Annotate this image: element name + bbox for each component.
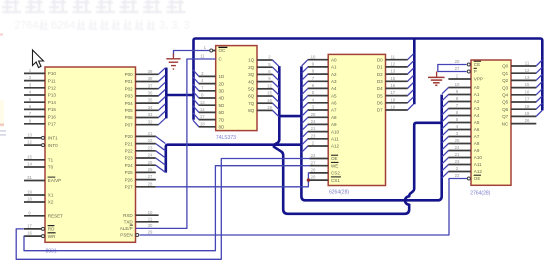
- svg-text:26: 26: [311, 168, 316, 173]
- svg-text:WR: WR: [48, 234, 56, 239]
- svg-text:OC: OC: [219, 48, 227, 53]
- svg-text:Q5: Q5: [502, 100, 509, 105]
- svg-text:4D: 4D: [219, 96, 226, 101]
- svg-text:RESET: RESET: [48, 214, 63, 219]
- U1 right pin names: [120, 72, 134, 238]
- svg-text:15: 15: [525, 82, 530, 87]
- svg-text:12: 12: [267, 83, 272, 88]
- U2 left pin numbers: [200, 45, 207, 127]
- svg-text:A8: A8: [331, 115, 337, 120]
- svg-text:3D: 3D: [219, 89, 226, 94]
- svg-text:D0: D0: [377, 57, 383, 62]
- bus entries P00-P07: [158, 68, 165, 125]
- svg-text:20: 20: [311, 175, 316, 180]
- svg-text:4Q: 4Q: [248, 79, 255, 84]
- svg-text:P26: P26: [125, 177, 134, 182]
- mouse cursor: [33, 50, 44, 68]
- svg-text:A12: A12: [331, 144, 340, 149]
- U4 left pin wires: [448, 63, 471, 180]
- svg-text:VPP: VPP: [474, 77, 483, 82]
- svg-text:37: 37: [148, 83, 153, 88]
- svg-text:A9: A9: [331, 122, 337, 127]
- svg-text:RXD: RXD: [123, 213, 133, 218]
- svg-text:32: 32: [148, 119, 153, 124]
- wire OC to ground: [174, 51, 210, 58]
- svg-text:24: 24: [148, 153, 153, 158]
- svg-text:10: 10: [455, 82, 460, 87]
- U3 overlines OE WE CS1: [331, 155, 341, 177]
- U3 left pin wires: [308, 60, 329, 180]
- svg-text:21: 21: [311, 126, 316, 131]
- svg-text:P03: P03: [125, 94, 134, 99]
- svg-text:OE: OE: [331, 156, 338, 161]
- svg-text:A10: A10: [331, 129, 340, 134]
- U2 OC overline: [218, 46, 227, 48]
- svg-text:WE: WE: [331, 163, 338, 168]
- svg-text:8031: 8031: [46, 248, 57, 254]
- U2 right pin names: [248, 58, 255, 113]
- svg-text:A7: A7: [474, 134, 480, 139]
- U1 right pin wires: [136, 74, 159, 236]
- U4 right pin numbers: [525, 61, 530, 124]
- svg-text:A9: A9: [474, 148, 480, 153]
- svg-text:T0: T0: [48, 165, 54, 170]
- bus bridge Q to 6264 address: [279, 115, 301, 118]
- svg-text:P07: P07: [125, 122, 134, 127]
- U1 left pin names: [48, 71, 63, 239]
- U2 right pin numbers: [267, 55, 272, 110]
- svg-text:15: 15: [27, 154, 32, 159]
- svg-text:23: 23: [455, 159, 460, 164]
- U1 left pin numbers: [27, 68, 32, 236]
- svg-text:A6: A6: [331, 101, 337, 106]
- svg-text:P27: P27: [125, 185, 134, 190]
- svg-text:P15: P15: [48, 107, 57, 112]
- svg-text:EA/VP: EA/VP: [48, 178, 61, 183]
- svg-text:3, 3, 3: 3, 3, 3: [159, 19, 190, 31]
- svg-text:P00: P00: [125, 72, 134, 77]
- wire PSEN to 2764 OE: [140, 179, 468, 236]
- svg-text:22: 22: [311, 153, 316, 158]
- U2 right pin wires: [257, 60, 273, 110]
- svg-text:23: 23: [311, 133, 316, 138]
- svg-text:20: 20: [455, 59, 460, 64]
- wire WR to 6264 WE: [24, 166, 310, 251]
- svg-text:A12: A12: [474, 169, 483, 174]
- svg-text:D1: D1: [377, 65, 383, 70]
- svg-text:2D: 2D: [219, 81, 226, 86]
- junction dot at 6264 CS1: [307, 178, 310, 181]
- svg-text:18: 18: [390, 97, 395, 102]
- svg-text:10: 10: [311, 54, 316, 59]
- U4 right pin names: [502, 64, 509, 127]
- svg-text:19: 19: [27, 190, 32, 195]
- svg-text:P01: P01: [125, 79, 134, 84]
- svg-text:Q1: Q1: [502, 71, 509, 76]
- svg-text:P20: P20: [125, 134, 134, 139]
- svg-text:26: 26: [148, 167, 153, 172]
- U2 left pin names: [219, 48, 227, 129]
- microcontroller U1 8031 body: [45, 67, 136, 242]
- svg-text:P14: P14: [48, 100, 57, 105]
- U2 reference label 74LS373: [216, 135, 236, 141]
- bus bridge P0 to D: [165, 94, 193, 97]
- svg-text:3Q: 3Q: [248, 72, 255, 77]
- svg-text:X1: X1: [48, 193, 54, 198]
- svg-text:A1: A1: [331, 65, 337, 70]
- svg-text:14: 14: [27, 162, 32, 167]
- svg-text:Q2: Q2: [502, 78, 509, 83]
- wire 2764 CE and PGM to ground: [438, 65, 467, 72]
- svg-text:A11: A11: [474, 162, 482, 167]
- svg-text:A8: A8: [474, 141, 480, 146]
- svg-text:25: 25: [311, 112, 316, 117]
- U3 right pin wires: [386, 60, 408, 110]
- svg-text:23: 23: [148, 145, 153, 150]
- ground symbol at 2764 CE: [428, 72, 445, 86]
- svg-text:7Q: 7Q: [248, 101, 255, 106]
- svg-text:P: P: [474, 69, 477, 74]
- bus entries 1D-8D: [193, 70, 199, 127]
- svg-text:A2: A2: [474, 99, 480, 104]
- svg-text:18: 18: [525, 104, 530, 109]
- svg-text:ALE/P: ALE/P: [120, 226, 133, 231]
- svg-text:D7: D7: [377, 108, 383, 113]
- svg-text:24: 24: [311, 119, 316, 124]
- svg-text:P16: P16: [48, 114, 57, 119]
- svg-text:A2: A2: [331, 72, 337, 77]
- svg-text:38: 38: [148, 76, 153, 81]
- svg-text:11: 11: [200, 53, 205, 58]
- U3 right pin names: [377, 57, 383, 112]
- svg-text:12: 12: [27, 140, 32, 145]
- svg-text:P12: P12: [48, 86, 57, 91]
- svg-text:2764(28): 2764(28): [470, 190, 490, 196]
- svg-text:34: 34: [148, 105, 153, 110]
- svg-text:13: 13: [390, 69, 395, 74]
- bus entries 2764 Q0-Q7: [536, 60, 542, 116]
- svg-text:PSEN: PSEN: [120, 233, 132, 238]
- svg-text:INT1: INT1: [48, 136, 58, 141]
- svg-text:15: 15: [390, 76, 395, 81]
- svg-text:13: 13: [200, 100, 205, 105]
- svg-text:A3: A3: [331, 79, 337, 84]
- bus entries P20-P24: [156, 136, 166, 172]
- svg-text:1Q: 1Q: [248, 58, 255, 63]
- svg-text:33: 33: [148, 112, 153, 117]
- svg-text:13: 13: [525, 75, 530, 80]
- svg-text:Q4: Q4: [502, 93, 509, 98]
- svg-text:CE: CE: [474, 62, 480, 67]
- svg-text:P22: P22: [125, 149, 134, 154]
- bus entries 1Q-8Q: [273, 60, 279, 117]
- svg-text:7D: 7D: [219, 117, 226, 122]
- svg-text:NC: NC: [502, 121, 509, 126]
- svg-text:17: 17: [525, 97, 530, 102]
- svg-text:A10: A10: [474, 155, 483, 160]
- svg-text:11: 11: [148, 216, 153, 221]
- svg-text:74LS373: 74LS373: [216, 135, 236, 141]
- bus 6264 address vertical with lower horizontal to 2764 address vertical: [301, 66, 441, 200]
- svg-text:39: 39: [148, 69, 153, 74]
- U1 overline ALE/P: [130, 224, 133, 226]
- svg-text:Q0: Q0: [502, 64, 509, 69]
- svg-text:25: 25: [148, 160, 153, 165]
- svg-text:D3: D3: [377, 79, 383, 84]
- U3 right pin numbers: [390, 54, 395, 109]
- wire RD to 6264 OE: [16, 159, 310, 260]
- svg-text:24: 24: [455, 145, 460, 150]
- svg-text:35: 35: [148, 98, 153, 103]
- svg-text:Q7: Q7: [502, 114, 509, 119]
- svg-text:D5: D5: [377, 93, 383, 98]
- svg-text:1D: 1D: [219, 74, 226, 79]
- svg-text:P02: P02: [125, 86, 134, 91]
- svg-text:P21: P21: [125, 141, 134, 146]
- U3 left pin numbers: [311, 54, 316, 179]
- bus 6264 data vertical: [413, 39, 416, 105]
- svg-text:P23: P23: [125, 156, 134, 161]
- U1 overlines EA RD WR: [48, 177, 56, 233]
- svg-text:16: 16: [525, 89, 530, 94]
- U4 left pin numbers: [455, 59, 460, 178]
- U1 reference label 8031: [46, 248, 57, 254]
- RAM U3 6264 body: [328, 54, 385, 185]
- wire P27 to 6264 CS1 CS2: [156, 173, 310, 187]
- svg-text:27: 27: [311, 160, 316, 165]
- U1 left pin wires: [24, 73, 45, 237]
- svg-text:D4: D4: [377, 86, 383, 91]
- svg-text:P24: P24: [125, 163, 134, 168]
- svg-text:22: 22: [455, 173, 460, 178]
- svg-text:A4: A4: [474, 113, 480, 118]
- svg-text:31: 31: [27, 175, 32, 180]
- svg-text:17: 17: [390, 90, 395, 95]
- svg-text:16: 16: [267, 98, 272, 103]
- U4 right pin wires: [511, 66, 536, 124]
- svg-text:A11: A11: [331, 137, 339, 142]
- bus top data bus horizontal with corner verticals: [194, 39, 543, 120]
- svg-text:8Q: 8Q: [248, 108, 255, 113]
- bus Q outputs vertical with jog elbow to lower horizontal and riser to 2764: [274, 66, 442, 214]
- bus P2 vertical and horizontal to 6264 address bus: [166, 145, 302, 173]
- U4 left pin names: [474, 62, 483, 181]
- U3 reference label 6264(28): [329, 190, 349, 196]
- svg-text:27: 27: [148, 174, 153, 179]
- svg-text:CS2: CS2: [331, 171, 340, 176]
- svg-text:D6: D6: [377, 101, 383, 106]
- svg-text:RD: RD: [48, 227, 55, 232]
- svg-text:12: 12: [390, 62, 395, 67]
- U4 reference label 2764(28): [470, 190, 490, 196]
- svg-text:D2: D2: [377, 72, 383, 77]
- svg-text:14: 14: [200, 107, 205, 112]
- svg-text:28: 28: [148, 181, 153, 186]
- svg-text:A6: A6: [474, 127, 480, 132]
- svg-text:17: 17: [200, 114, 205, 119]
- svg-text:27: 27: [455, 66, 460, 71]
- svg-text:6D: 6D: [219, 110, 226, 115]
- bus entries 6264 D0-D7: [408, 54, 414, 110]
- svg-text:29: 29: [148, 230, 153, 235]
- svg-text:A3: A3: [474, 106, 480, 111]
- U1 right pin numbers: [148, 69, 153, 235]
- bus entries 2764 A0-A12: [442, 88, 449, 178]
- svg-text:19: 19: [525, 111, 530, 116]
- svg-text:CS1: CS1: [331, 178, 340, 183]
- svg-text:21: 21: [148, 131, 153, 136]
- svg-text:P17: P17: [48, 122, 57, 127]
- svg-text:A0: A0: [474, 85, 480, 90]
- ground symbol at 74LS373 OC: [166, 54, 180, 70]
- svg-text:5Q: 5Q: [248, 87, 255, 92]
- svg-text:18: 18: [200, 121, 205, 126]
- svg-text:P13: P13: [48, 93, 57, 98]
- faint title text line 2: [14, 19, 190, 31]
- svg-text:P05: P05: [125, 108, 134, 113]
- svg-text:21: 21: [455, 152, 460, 157]
- svg-text:11: 11: [391, 54, 396, 59]
- svg-text:18: 18: [27, 197, 32, 202]
- svg-text:15: 15: [267, 91, 272, 96]
- svg-text:10: 10: [148, 210, 153, 215]
- svg-text:12: 12: [525, 68, 530, 73]
- svg-text:A0: A0: [331, 57, 337, 62]
- U4 overlines CE P OE: [474, 61, 481, 175]
- EPROM U4 2764 body: [471, 60, 511, 185]
- svg-text:16: 16: [390, 83, 395, 88]
- svg-text:2764: 2764: [14, 19, 38, 31]
- wire ALE to latch C pin: [136, 59, 216, 228]
- U3 left pin names: [331, 57, 340, 182]
- svg-text:5D: 5D: [219, 103, 226, 108]
- svg-text:11: 11: [525, 61, 530, 66]
- svg-text:OE: OE: [474, 176, 481, 181]
- svg-text:8D: 8D: [219, 125, 226, 130]
- svg-text:A5: A5: [474, 120, 480, 125]
- bus entries 6264 A0-A12: [302, 60, 308, 153]
- svg-text:A1: A1: [474, 92, 480, 97]
- svg-text:T1: T1: [48, 158, 54, 163]
- svg-text:13: 13: [27, 133, 32, 138]
- svg-text:A5: A5: [331, 93, 337, 98]
- svg-text:17: 17: [27, 224, 32, 229]
- bus P0 vertical: [165, 68, 168, 119]
- svg-text:X2: X2: [48, 200, 54, 205]
- svg-text:P06: P06: [125, 115, 134, 120]
- svg-text:6264: 6264: [51, 19, 75, 31]
- svg-text:INT0: INT0: [48, 143, 58, 148]
- svg-text:6Q: 6Q: [248, 94, 255, 99]
- faint title text line 1: [2, 0, 186, 13]
- svg-text:26: 26: [525, 118, 530, 123]
- svg-text:A7: A7: [331, 108, 337, 113]
- svg-text:36: 36: [148, 91, 153, 96]
- svg-text:TXD: TXD: [124, 220, 134, 225]
- svg-text:P25: P25: [125, 170, 134, 175]
- U2 left pin wires: [199, 49, 216, 127]
- svg-text:22: 22: [148, 138, 153, 143]
- svg-text:19: 19: [267, 105, 272, 110]
- svg-text:25: 25: [455, 138, 460, 143]
- svg-text:6264(28): 6264(28): [329, 190, 349, 196]
- svg-text:30: 30: [148, 223, 153, 228]
- svg-text:A4: A4: [331, 86, 337, 91]
- svg-text:16: 16: [27, 231, 32, 236]
- svg-text:Q6: Q6: [502, 107, 509, 112]
- svg-text:19: 19: [390, 105, 395, 110]
- svg-text:Q3: Q3: [502, 85, 509, 90]
- svg-text:2Q: 2Q: [248, 65, 255, 70]
- svg-text:P04: P04: [125, 101, 134, 106]
- svg-text:P10: P10: [48, 71, 57, 76]
- latch U2 74LS373 body: [216, 46, 257, 131]
- left edge cropped component remnant: [0, 34, 6, 136]
- svg-text:P11: P11: [48, 78, 56, 83]
